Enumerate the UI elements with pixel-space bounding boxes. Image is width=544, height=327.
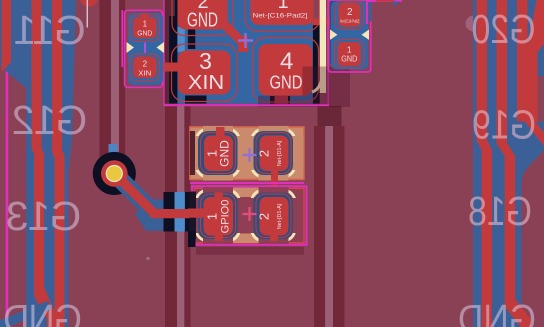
- blue wedge top edge: [393, 2, 401, 7]
- translucent clearance overlay bottom-right: [258, 67, 350, 108]
- white silkscreen line below red disc: [87, 0, 88, 28]
- C17 pad outlines: [336, 1, 364, 30]
- RB right pad backing: [254, 193, 294, 240]
- svg-text:Net-[C16-Pad2]: Net-[C16-Pad2]: [340, 19, 359, 24]
- svg-text:2: 2: [257, 213, 272, 220]
- wire: right red trace T4 (enters top right, joins T3 diagonal): [527, 0, 544, 122]
- RT left pad outline: [201, 133, 236, 174]
- svg-text:GND: GND: [187, 10, 218, 32]
- pad 1 Net-[C16-Pad2]: [251, 0, 314, 25]
- RB anchor cross pink: [243, 207, 257, 221]
- wire: trace into RB pad1 from left: [188, 209, 206, 218]
- wire: right red trace T1 (with jog): [477, 0, 493, 327]
- tiny grid dot: [147, 257, 150, 260]
- crystal copper backing (blue): [166, 0, 314, 104]
- RB left pad outline: [201, 194, 236, 238]
- inner-layer trace clearance stripes, set B (below crystal): [165, 106, 191, 327]
- via pad (red ring): [101, 160, 128, 187]
- svg-text:Net-[C16-Pad2]: Net-[C16-Pad2]: [253, 13, 308, 20]
- inner-layer trace clearance stripes, set C (below right capacitor): [314, 106, 344, 327]
- wire: blue trace left inside C17: [330, 0, 340, 64]
- RB tan band top center: [232, 188, 259, 198]
- wire: bright blue B.Cu trace exposed in clearance: [175, 192, 185, 232]
- RB inner fill: [194, 188, 306, 244]
- RB cream arcs left backing: [196, 190, 240, 241]
- RB inner red outline: [195, 188, 305, 243]
- silkscreen hook (cream): [312, 80, 322, 92]
- net label GND (bottom-right, cut by edge): [458, 296, 536, 327]
- RT right pad outline: [256, 133, 291, 174]
- svg-text:2: 2: [257, 150, 272, 157]
- left magenta line near C16: [121, 10, 123, 67]
- anchor cross (violet): [238, 33, 253, 48]
- crystal courtyard bottom magenta line: [164, 104, 329, 106]
- svg-text:GND: GND: [218, 140, 232, 167]
- inner trace maroon blob right side: [532, 76, 544, 122]
- wire: stub pad1 to right: [312, 19, 340, 26]
- wire: diagonal stub from pad 2: [224, 24, 241, 41]
- wire: red F.Cu trace from via to GPIO0 pad: [114, 174, 200, 214]
- net label G13: [7, 193, 82, 239]
- RT cream arcs right backing: [252, 129, 296, 177]
- crystal courtyard (magenta outline): [164, 0, 328, 105]
- svg-text:XIN: XIN: [188, 71, 225, 94]
- svg-text:1: 1: [347, 45, 352, 55]
- svg-text:G12: G12: [13, 97, 88, 143]
- svg-text:Net-[D1-A]: Net-[D1-A]: [277, 140, 283, 166]
- wire: left red trace 1 (bends off left edge): [2, 0, 12, 72]
- net label G12: [13, 97, 88, 143]
- clearance black below pad 2: [188, 29, 195, 49]
- pink circle fragment at right plane edge: [466, 16, 482, 32]
- RT pad1 top stub: [216, 127, 225, 137]
- C17 courtyard magenta: [328, 0, 371, 72]
- svg-text:GND: GND: [4, 296, 82, 327]
- RB masks over cream mid-edges: [203, 187, 233, 194]
- wire: blue trace right of C17: [368, 0, 371, 22]
- svg-text:GND: GND: [270, 72, 303, 93]
- C16 pad 1 GND: [133, 17, 157, 39]
- clearance black below pad 4: [270, 96, 290, 104]
- C17 copper backing blue: [331, 1, 368, 70]
- svg-text:GPIO0: GPIO0: [220, 200, 232, 234]
- svg-text:2: 2: [347, 7, 353, 18]
- C16 pad outlines: [130, 15, 160, 42]
- svg-text:GND: GND: [458, 296, 536, 327]
- RB courtyard magenta: [192, 186, 307, 245]
- wire: blue B.Cu diagonal from via: [114, 174, 156, 216]
- RT right pad backing: [254, 131, 294, 175]
- C16 silkscreen bowtie left: [127, 42, 135, 53]
- net label G18: [468, 188, 532, 234]
- net label G11 (mirrored silkscreen on plane): [14, 7, 85, 53]
- RB left pad backing: [198, 193, 238, 240]
- wire: left red trace 2 (bends into trace 3 at bottom): [32, 0, 58, 327]
- black clearance columns where trace crosses stripes: [164, 192, 175, 232]
- black clearance left of RB: [188, 231, 196, 247]
- inner-layer trace clearance stripes, set A (left of via): [99, 0, 125, 170]
- board edge / zone outline (magenta vertical line, far left): [6, 60, 9, 327]
- RB pad stubs: [215, 193, 224, 199]
- pad 2 GND: [178, 0, 228, 30]
- svg-text:G18: G18: [468, 188, 532, 234]
- RB right pad outline: [256, 194, 291, 238]
- via clearance (black disc): [93, 152, 136, 195]
- C17 silkscreen bowtie right: [362, 30, 370, 40]
- C16 pad1 thermal stub: [141, 14, 149, 19]
- RT cream arcs left backing: [196, 129, 240, 177]
- svg-text:XIN: XIN: [138, 69, 151, 78]
- svg-text:G19: G19: [472, 101, 536, 147]
- svg-text:GND: GND: [137, 29, 153, 38]
- RT tan masks over cream mid-edges: [203, 126, 233, 132]
- wire: stub pad3 to left: [154, 63, 179, 72]
- clearance black right column: [313, 25, 320, 104]
- C16 courtyard magenta: [125, 10, 163, 87]
- svg-text:G20: G20: [472, 6, 536, 52]
- wire: bright blue inner column below pad 2: [177, 27, 184, 52]
- wire: blue band along horizontal trace: [135, 199, 197, 230]
- svg-text:1: 1: [277, 0, 288, 13]
- pad 1 clearance outline: [245, 0, 320, 31]
- svg-text:2: 2: [143, 60, 148, 69]
- C16 center line (violet): [144, 43, 146, 54]
- svg-text:Net-[D1-A]: Net-[D1-A]: [277, 203, 283, 229]
- RT courtyard bottom magenta line: [190, 182, 304, 184]
- right ground plane (B.Cu zone): [473, 0, 544, 327]
- RT left pad backing: [198, 131, 238, 175]
- RT pad 2 Net-[D1-A]: [260, 136, 289, 172]
- wire: blue diagonal at bottom-left corner: [0, 305, 50, 326]
- pad 3 clearance outline: [172, 44, 238, 102]
- svg-text:1: 1: [143, 20, 148, 29]
- crystal right silkscreen strip (cream): [320, 0, 326, 93]
- RT body fill (tan F.Fab): [190, 127, 304, 180]
- wire: left red trace 3: [52, 0, 65, 327]
- C17 magenta center vertical: [366, 0, 368, 24]
- svg-text:G11: G11: [14, 7, 85, 53]
- C16 silkscreen bowtie right: [157, 42, 165, 53]
- via drill (yellow): [106, 166, 122, 182]
- wire: right red trace T2 (jog, exits bottom right): [497, 0, 532, 327]
- wire: right red trace T3 (exits right edge): [517, 0, 544, 146]
- RB pad 1 GPIO0: [204, 197, 234, 236]
- magenta line top edge: [366, 0, 402, 2]
- net label G19: [472, 101, 536, 147]
- net label GND (bottom-left, cut by edge): [4, 296, 82, 327]
- wire: blue B.Cu stub above via: [109, 144, 118, 160]
- svg-text:1: 1: [205, 213, 220, 220]
- dark red band below RB: [196, 247, 304, 255]
- RB cream arcs right backing: [252, 190, 296, 241]
- clearance dark red column left edge: [165, 0, 169, 104]
- pad 4 GND: [259, 44, 313, 96]
- RB pad 2 Net-[D1-A]: [260, 197, 289, 236]
- red disc at top edge: [80, 0, 97, 7]
- wire: trace RT pad2 to RB pad2: [271, 168, 278, 198]
- svg-text:G13: G13: [7, 193, 82, 239]
- svg-text:GND: GND: [341, 55, 357, 64]
- pad 3 XIN: [178, 51, 231, 95]
- pad 4 bottom stub: [275, 95, 289, 104]
- dark clearance strip left of RB backing: [190, 192, 197, 240]
- RT pad 1 GND: [204, 136, 233, 172]
- C16 copper backing blue: [128, 13, 163, 85]
- C17 silkscreen bowtie left: [330, 30, 338, 40]
- clearance black below pad 3: [185, 96, 207, 104]
- C17 pad 2: [339, 3, 361, 28]
- net label G20 (mirrored): [472, 6, 536, 52]
- left ground plane (B.Cu zone): [0, 0, 76, 327]
- C17 pad 1 GND: [338, 42, 362, 66]
- C16 pad 2 XIN: [133, 57, 157, 79]
- RB tan band bottom center: [232, 234, 259, 244]
- dark strip left of RT backing: [190, 131, 195, 175]
- pad 2 clearance outline: [172, 0, 233, 36]
- clearance black column left: [169, 16, 177, 104]
- wire: red bit top edge: [376, 0, 394, 2]
- RT anchor cross violet: [243, 148, 257, 162]
- pad 4 clearance outline: [253, 38, 319, 103]
